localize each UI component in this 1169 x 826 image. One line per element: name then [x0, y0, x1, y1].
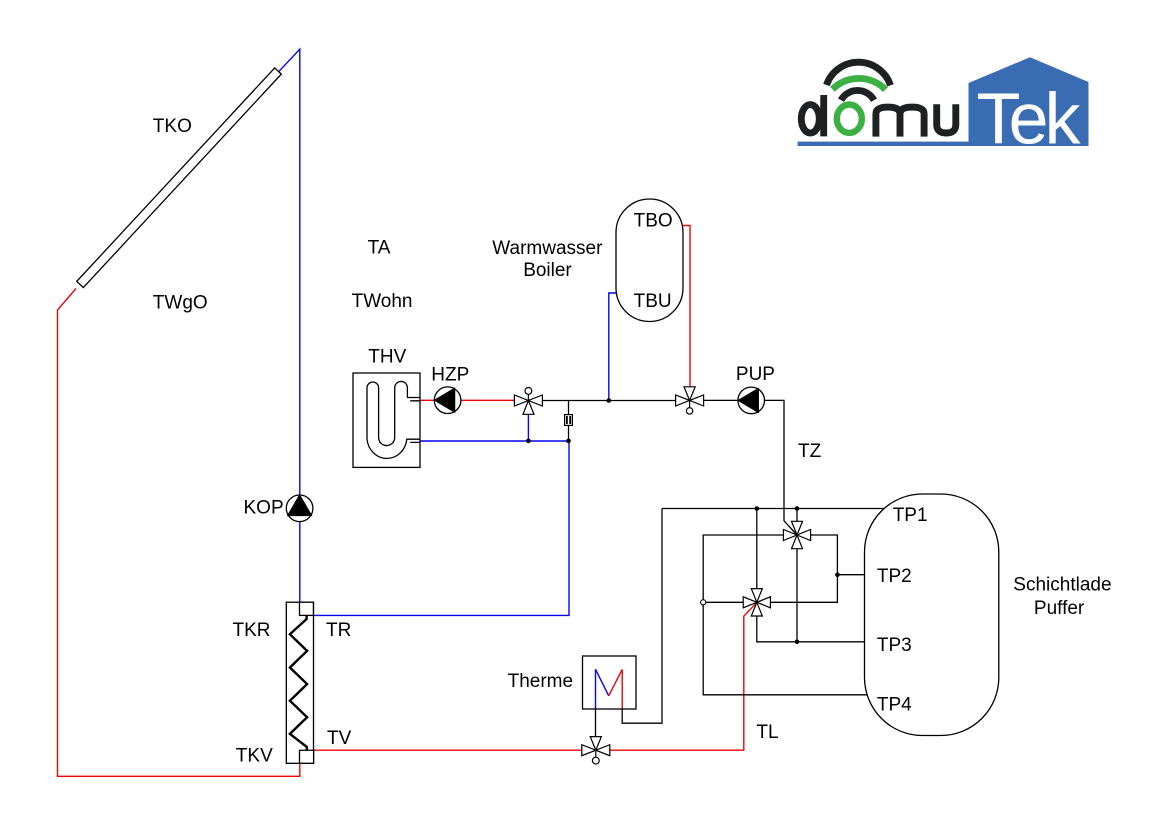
- heat exchanger bottom port square: [300, 750, 314, 763]
- wire black upper valve top stub: [796, 509, 798, 522]
- logo letter o: [837, 105, 862, 133]
- valve upper 4way: [783, 521, 810, 548]
- svg-text:THV: THV: [368, 346, 406, 367]
- svg-text:TKO: TKO: [153, 116, 192, 137]
- wire black main TP1 line: [662, 508, 884, 510]
- wire black therme loop left riser: [622, 509, 662, 724]
- wire black lower valve left arm: [703, 601, 743, 603]
- logo domuTek: [798, 57, 1089, 159]
- logo wifi inner arc: [841, 90, 874, 100]
- junction TP1 line to lower valve riser: [755, 506, 760, 511]
- svg-text:TWohn: TWohn: [352, 291, 413, 312]
- wire red therme right: [621, 669, 623, 709]
- check valve component: [565, 415, 573, 426]
- wire black TP2 line: [837, 574, 864, 576]
- wire red HZP pump to valve: [461, 399, 515, 401]
- svg-text:TL: TL: [756, 722, 778, 743]
- svg-text:Tek: Tek: [977, 80, 1082, 160]
- wire black check stub: [568, 401, 570, 442]
- pump PUP: [738, 387, 765, 414]
- wire black lower valve bottom TP3: [757, 616, 865, 642]
- svg-text:TP3: TP3: [877, 635, 912, 656]
- tank Schichtlade Puffer: [865, 494, 999, 736]
- svg-text:TKV: TKV: [236, 745, 273, 766]
- wire solar return red exchanger to collector: [58, 289, 300, 777]
- boiler Warmwasser: [616, 199, 683, 322]
- THV box: [353, 373, 420, 467]
- svg-text:TP2: TP2: [877, 566, 912, 587]
- wire black upper valve bottom drop: [796, 549, 798, 642]
- THV coil: [367, 381, 420, 458]
- logo house: [969, 57, 1089, 146]
- wire red THV to HZP pump: [420, 399, 435, 401]
- svg-text:TA: TA: [368, 237, 391, 258]
- pump KOP: [286, 495, 313, 522]
- junction TP2 tap: [835, 572, 840, 577]
- svg-text:TBU: TBU: [634, 291, 672, 312]
- svg-text:TWgO: TWgO: [153, 293, 208, 314]
- junction boiler blue to main line: [607, 398, 612, 403]
- heat exchanger body: [286, 602, 313, 763]
- collector TKO panel: [77, 68, 282, 288]
- svg-text:Therme: Therme: [508, 671, 573, 692]
- wire red TL valve to lower 4way valve: [609, 602, 757, 750]
- svg-text:TR: TR: [326, 620, 351, 641]
- wire blue boiler TBU down: [609, 293, 617, 401]
- wire blue therme inlet: [595, 669, 597, 709]
- wire black upper valve left loop TP4: [703, 535, 867, 695]
- logo letter u: [937, 104, 956, 133]
- THV port stubs: [410, 401, 420, 443]
- junction check stub to blue return: [566, 439, 571, 444]
- svg-text:TZ: TZ: [798, 441, 822, 462]
- svg-text:TV: TV: [327, 728, 352, 749]
- wire black HZP valve to PUP valve: [542, 400, 675, 402]
- logo letter d: [801, 95, 956, 137]
- node open circle left of lower valve: [701, 600, 706, 605]
- junction TP1 line to upper valve stub: [795, 506, 800, 511]
- svg-text:KOP: KOP: [244, 498, 284, 519]
- svg-text:Schichtlade: Schichtlade: [1013, 575, 1111, 596]
- heat exchanger zigzag: [290, 615, 307, 750]
- wire blue HZP valve drop: [527, 414, 529, 441]
- logo wifi outer arc: [827, 62, 891, 85]
- svg-text:TP4: TP4: [877, 695, 912, 716]
- svg-text:HZP: HZP: [431, 364, 469, 385]
- wire red TV exchanger to therme valve: [314, 749, 583, 751]
- svg-text:PUP: PUP: [736, 364, 775, 385]
- svg-text:TP1: TP1: [893, 505, 928, 526]
- pump HZP: [434, 387, 461, 414]
- valve HZP 3way: [514, 388, 542, 415]
- logo wifi green arc: [833, 78, 886, 89]
- valve Therme 3way: [582, 737, 610, 764]
- valve PUP 3way: [676, 387, 704, 414]
- svg-text:TKR: TKR: [233, 620, 271, 641]
- wire black PUP valve to pump: [703, 399, 738, 401]
- logo underline: [798, 142, 969, 146]
- wire blue THV return to TR line: [314, 441, 569, 615]
- wire black lower valve riser: [756, 509, 758, 589]
- wire solar flow blue collector to KOP to exchanger: [279, 49, 300, 602]
- wire black upper valve right arm down: [771, 535, 837, 602]
- svg-text:Puffer: Puffer: [1034, 598, 1085, 619]
- wire black therme to valve: [595, 709, 597, 737]
- heat exchanger top port square: [300, 602, 314, 615]
- svg-text:TBO: TBO: [634, 210, 673, 231]
- wire blue therme diag: [596, 669, 609, 696]
- wire black TZ pump to upper 4way valve: [764, 400, 797, 535]
- Therme box: [583, 656, 637, 709]
- logo letter m: [876, 107, 924, 137]
- junction HZP valve drop to blue return: [526, 439, 531, 444]
- valve lower 4way: [743, 589, 770, 616]
- wire red boiler TBO down to PUP valve: [683, 226, 691, 388]
- svg-text:Boiler: Boiler: [523, 260, 572, 281]
- svg-text:Warmwasser: Warmwasser: [492, 238, 603, 259]
- junction TP3 line: [795, 640, 800, 645]
- wire red therme diag out: [609, 669, 623, 695]
